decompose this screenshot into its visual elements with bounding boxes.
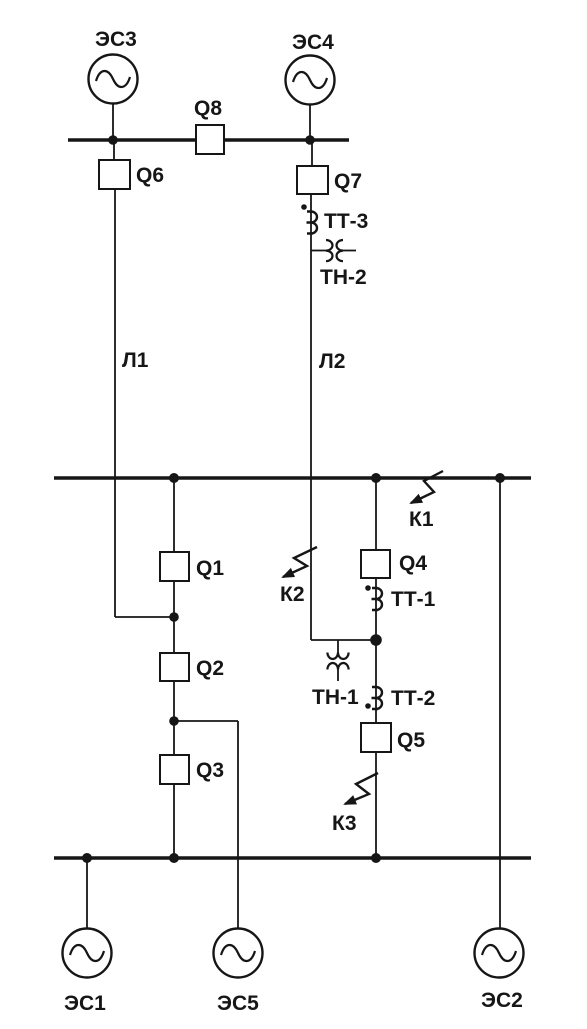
junction dot ЭС3 top bus [108, 135, 118, 145]
wire middle bus to Q4 [375, 478, 377, 550]
junction dot ЭС4 top bus [305, 135, 315, 145]
wire Л2 bend to TT-1 junction [311, 639, 376, 641]
voltage transformer TH-2 winding right [337, 240, 344, 261]
voltage transformer TH-2 tap wire left [311, 250, 326, 252]
svg-text:ЭС3: ЭС3 [95, 28, 137, 51]
svg-text:Q4: Q4 [399, 552, 427, 575]
breaker Q2 [160, 653, 189, 681]
svg-text:Л2: Л2 [319, 350, 345, 373]
wire top bus to Q7 [311, 141, 313, 166]
svg-text:ТН-1: ТН-1 [312, 686, 359, 709]
junction dot Q3 bottom bus [169, 853, 179, 863]
wire Л1 bend to Q1-Q2 junction [115, 616, 174, 618]
wire middle bus to Q1 [173, 478, 175, 552]
svg-text:ЭС5: ЭС5 [217, 992, 259, 1015]
polarity dot TT-2 [365, 703, 371, 709]
top bus [68, 138, 349, 141]
wire Л1 vertical [114, 189, 116, 617]
svg-text:К3: К3 [332, 812, 357, 835]
wire far right middle bus to ЭС2 [499, 478, 501, 929]
wire Q2-Q3 junction to ЭС5 horizontal [174, 720, 238, 722]
svg-text:ТН-2: ТН-2 [320, 266, 367, 289]
junction dot ЭС2 middle bus [495, 473, 505, 483]
wire Л2 vertical [310, 194, 312, 640]
svg-text:Q3: Q3 [196, 759, 224, 782]
junction dot TT-1 TH-1 node [370, 634, 382, 646]
svg-text:Л1: Л1 [122, 349, 149, 372]
wire ЭС1 to bottom bus [86, 858, 88, 929]
svg-text:ЭС4: ЭС4 [292, 31, 334, 54]
svg-text:ЭС1: ЭС1 [64, 992, 106, 1015]
voltage transformer TH-1 winding top [327, 653, 348, 660]
polarity dot TT-1 [365, 585, 371, 591]
wire Q2 to Q3 [173, 681, 175, 755]
breaker Q5 [361, 723, 391, 752]
generator ЭС1 [63, 929, 112, 978]
junction dot ЭС1 bottom bus [82, 853, 92, 863]
voltage transformer TH-1 stub bottom [337, 670, 339, 682]
breaker Q1 [160, 552, 189, 581]
generator ЭС2 [475, 929, 524, 978]
polarity dot TT-3 [301, 204, 307, 210]
junction dot Q1-Q2 [169, 612, 179, 622]
generator ЭС3 [89, 55, 138, 104]
breaker Q7 [297, 166, 328, 194]
current transformer TT-2 [372, 687, 383, 709]
wire ЭС5 vertical [237, 721, 239, 929]
fault K3 lightning [345, 773, 378, 804]
svg-text:К1: К1 [409, 508, 434, 531]
generator ЭС4 [286, 56, 335, 105]
junction dot Q5 bottom bus [371, 853, 381, 863]
svg-text:Q5: Q5 [397, 729, 425, 752]
generator ЭС5 [214, 929, 263, 978]
wire Q1 to Q2 [173, 581, 175, 653]
breaker Q8 [196, 125, 224, 154]
fault K1 lightning [411, 471, 443, 503]
wire top bus to Q6 [113, 141, 115, 160]
voltage transformer TH-1 stub top [337, 640, 339, 653]
voltage transformer TH-2 tap wire right [343, 250, 356, 252]
breaker Q4 [361, 550, 390, 578]
voltage transformer TH-1 winding bottom [327, 663, 348, 670]
wire ЭС4 to top bus [309, 105, 311, 140]
junction dot Q1 middle bus [169, 473, 179, 483]
breaker Q6 [99, 160, 130, 189]
current transformer TT-1 [372, 588, 383, 610]
bottom bus [54, 856, 531, 859]
svg-text:Q1: Q1 [196, 557, 224, 580]
svg-text:Q6: Q6 [136, 164, 164, 187]
breaker Q3 [160, 755, 189, 784]
svg-text:ЭС2: ЭС2 [481, 989, 523, 1012]
svg-text:К2: К2 [280, 583, 305, 606]
voltage transformer TH-2 winding left [326, 240, 333, 261]
middle bus [54, 476, 531, 479]
svg-text:ТТ-1: ТТ-1 [391, 588, 436, 611]
wire Q5 to bottom bus [375, 752, 377, 858]
wire Q3 to bottom bus [173, 784, 175, 858]
wire Q4 through TT-1 TT-2 to Q5 [375, 578, 377, 723]
svg-text:Q8: Q8 [194, 97, 222, 120]
fault K2 lightning [283, 547, 317, 577]
current transformer TT-3 [307, 212, 318, 234]
svg-text:Q7: Q7 [334, 170, 362, 193]
junction dot Q4 middle bus [371, 473, 381, 483]
svg-text:ТТ-3: ТТ-3 [324, 210, 368, 233]
junction dot Q2-Q3 [169, 716, 179, 726]
svg-text:Q2: Q2 [196, 657, 224, 680]
wire ЭС3 to top bus [112, 104, 114, 140]
svg-text:ТТ-2: ТТ-2 [391, 687, 435, 710]
